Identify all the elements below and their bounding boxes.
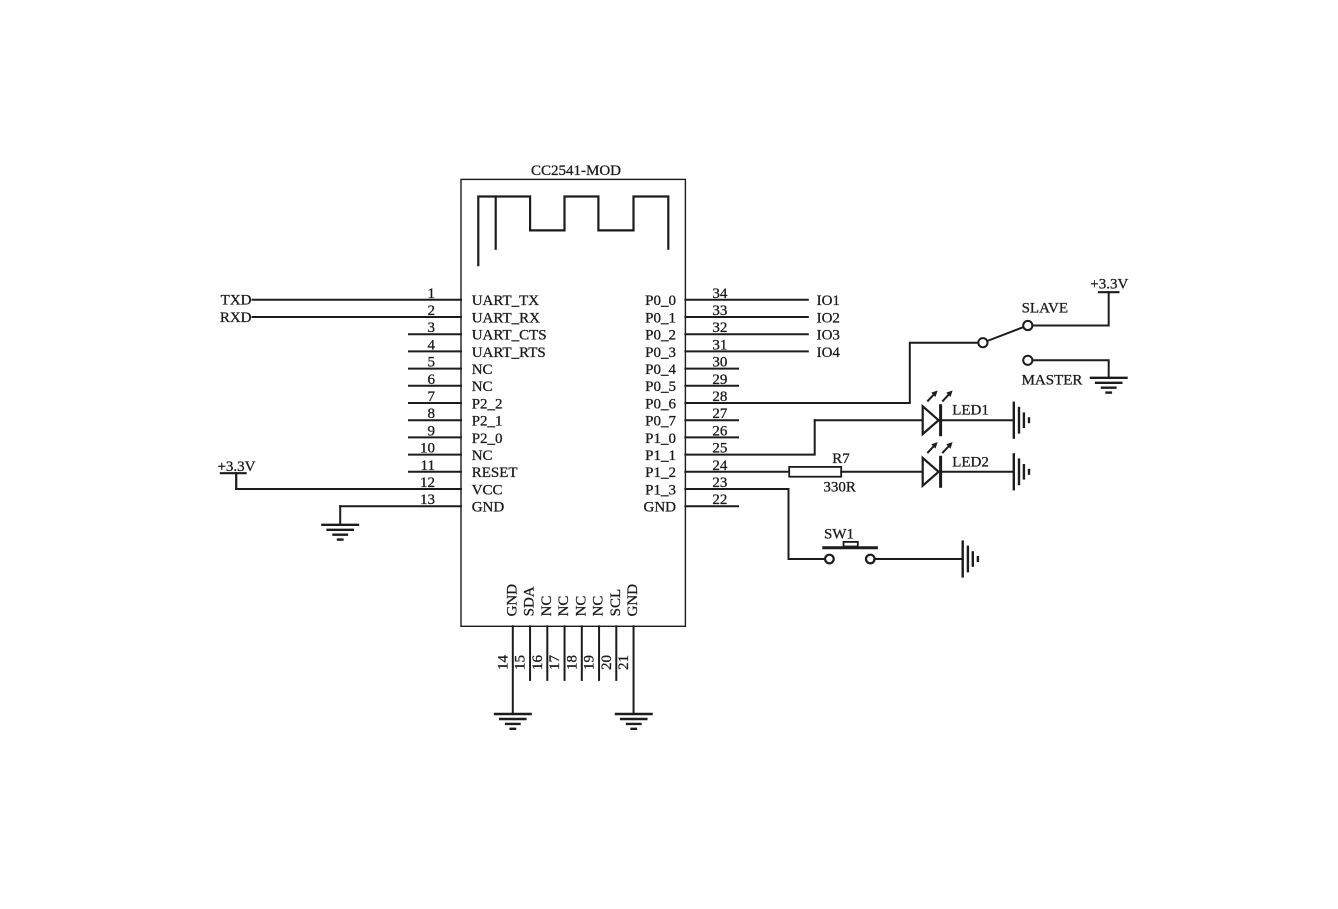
svg-text:TXD: TXD [221, 293, 252, 309]
svg-text:17: 17 [547, 655, 563, 671]
svg-text:NC: NC [539, 596, 555, 617]
svg-text:29: 29 [712, 372, 727, 388]
svg-text:UART_RX: UART_RX [472, 310, 540, 326]
svg-text:32: 32 [712, 320, 727, 336]
svg-text:14: 14 [495, 655, 511, 671]
svg-text:R7: R7 [832, 451, 850, 467]
svg-text:NC: NC [472, 448, 493, 464]
svg-text:VCC: VCC [472, 482, 503, 498]
svg-text:19: 19 [582, 655, 598, 670]
svg-text:16: 16 [530, 655, 546, 671]
svg-text:28: 28 [712, 389, 727, 405]
svg-text:NC: NC [556, 596, 572, 617]
svg-text:UART_CTS: UART_CTS [472, 328, 547, 344]
svg-text:2: 2 [428, 303, 436, 319]
svg-text:24: 24 [712, 458, 728, 474]
svg-text:P1_2: P1_2 [645, 465, 676, 481]
svg-text:UART_RTS: UART_RTS [472, 345, 546, 361]
svg-text:5: 5 [428, 355, 436, 371]
svg-text:GND: GND [625, 584, 641, 617]
svg-text:13: 13 [420, 492, 435, 508]
svg-text:4: 4 [428, 337, 436, 353]
svg-text:3: 3 [428, 320, 436, 336]
svg-text:P0_6: P0_6 [645, 396, 676, 412]
svg-text:P0_7: P0_7 [645, 414, 676, 430]
svg-text:8: 8 [428, 406, 436, 422]
svg-text:33: 33 [712, 303, 727, 319]
svg-text:9: 9 [428, 423, 436, 439]
svg-text:P2_0: P2_0 [472, 431, 503, 447]
svg-text:P0_5: P0_5 [645, 379, 676, 395]
svg-text:IO2: IO2 [817, 310, 840, 326]
svg-text:GND: GND [504, 584, 520, 617]
svg-text:+3.3V: +3.3V [1090, 276, 1128, 292]
svg-text:GND: GND [644, 500, 677, 516]
svg-text:MASTER: MASTER [1022, 373, 1083, 389]
svg-text:UART_TX: UART_TX [472, 293, 540, 309]
svg-text:11: 11 [421, 458, 435, 474]
svg-text:NC: NC [591, 596, 607, 617]
svg-text:10: 10 [420, 441, 435, 457]
svg-text:SLAVE: SLAVE [1022, 300, 1068, 316]
svg-text:15: 15 [513, 655, 529, 670]
svg-text:18: 18 [564, 655, 580, 670]
svg-text:LED2: LED2 [952, 454, 989, 470]
svg-text:RXD: RXD [220, 310, 252, 326]
svg-text:6: 6 [428, 372, 436, 388]
svg-text:P1_1: P1_1 [645, 448, 676, 464]
svg-text:26: 26 [712, 423, 728, 439]
svg-text:P0_2: P0_2 [645, 328, 676, 344]
svg-text:22: 22 [712, 492, 727, 508]
svg-text:7: 7 [428, 389, 436, 405]
svg-text:34: 34 [712, 286, 728, 302]
svg-text:SCL: SCL [608, 589, 624, 617]
svg-text:SW1: SW1 [824, 527, 854, 543]
svg-text:SDA: SDA [522, 586, 538, 616]
svg-text:1: 1 [428, 286, 436, 302]
svg-text:IO1: IO1 [817, 293, 840, 309]
svg-text:27: 27 [712, 406, 728, 422]
svg-text:21: 21 [616, 655, 632, 670]
svg-text:P0_0: P0_0 [645, 293, 676, 309]
svg-text:RESET: RESET [472, 465, 518, 481]
svg-text:23: 23 [712, 475, 727, 491]
svg-text:NC: NC [472, 362, 493, 378]
svg-text:CC2541-MOD: CC2541-MOD [531, 163, 621, 179]
svg-text:P2_2: P2_2 [472, 396, 503, 412]
svg-text:12: 12 [420, 475, 435, 491]
svg-text:20: 20 [599, 655, 615, 670]
svg-text:30: 30 [712, 355, 727, 371]
svg-text:P2_1: P2_1 [472, 414, 503, 430]
svg-text:P0_4: P0_4 [645, 362, 676, 378]
svg-text:NC: NC [573, 596, 589, 617]
svg-text:NC: NC [472, 379, 493, 395]
svg-text:P0_3: P0_3 [645, 345, 676, 361]
svg-text:P1_0: P1_0 [645, 431, 676, 447]
svg-text:LED1: LED1 [952, 403, 989, 419]
svg-text:GND: GND [472, 500, 505, 516]
svg-text:IO4: IO4 [817, 345, 841, 361]
svg-text:P0_1: P0_1 [645, 310, 676, 326]
svg-text:P1_3: P1_3 [645, 482, 676, 498]
svg-text:25: 25 [712, 441, 727, 457]
svg-text:330R: 330R [823, 480, 856, 496]
svg-text:31: 31 [712, 337, 727, 353]
svg-text:IO3: IO3 [817, 328, 840, 344]
